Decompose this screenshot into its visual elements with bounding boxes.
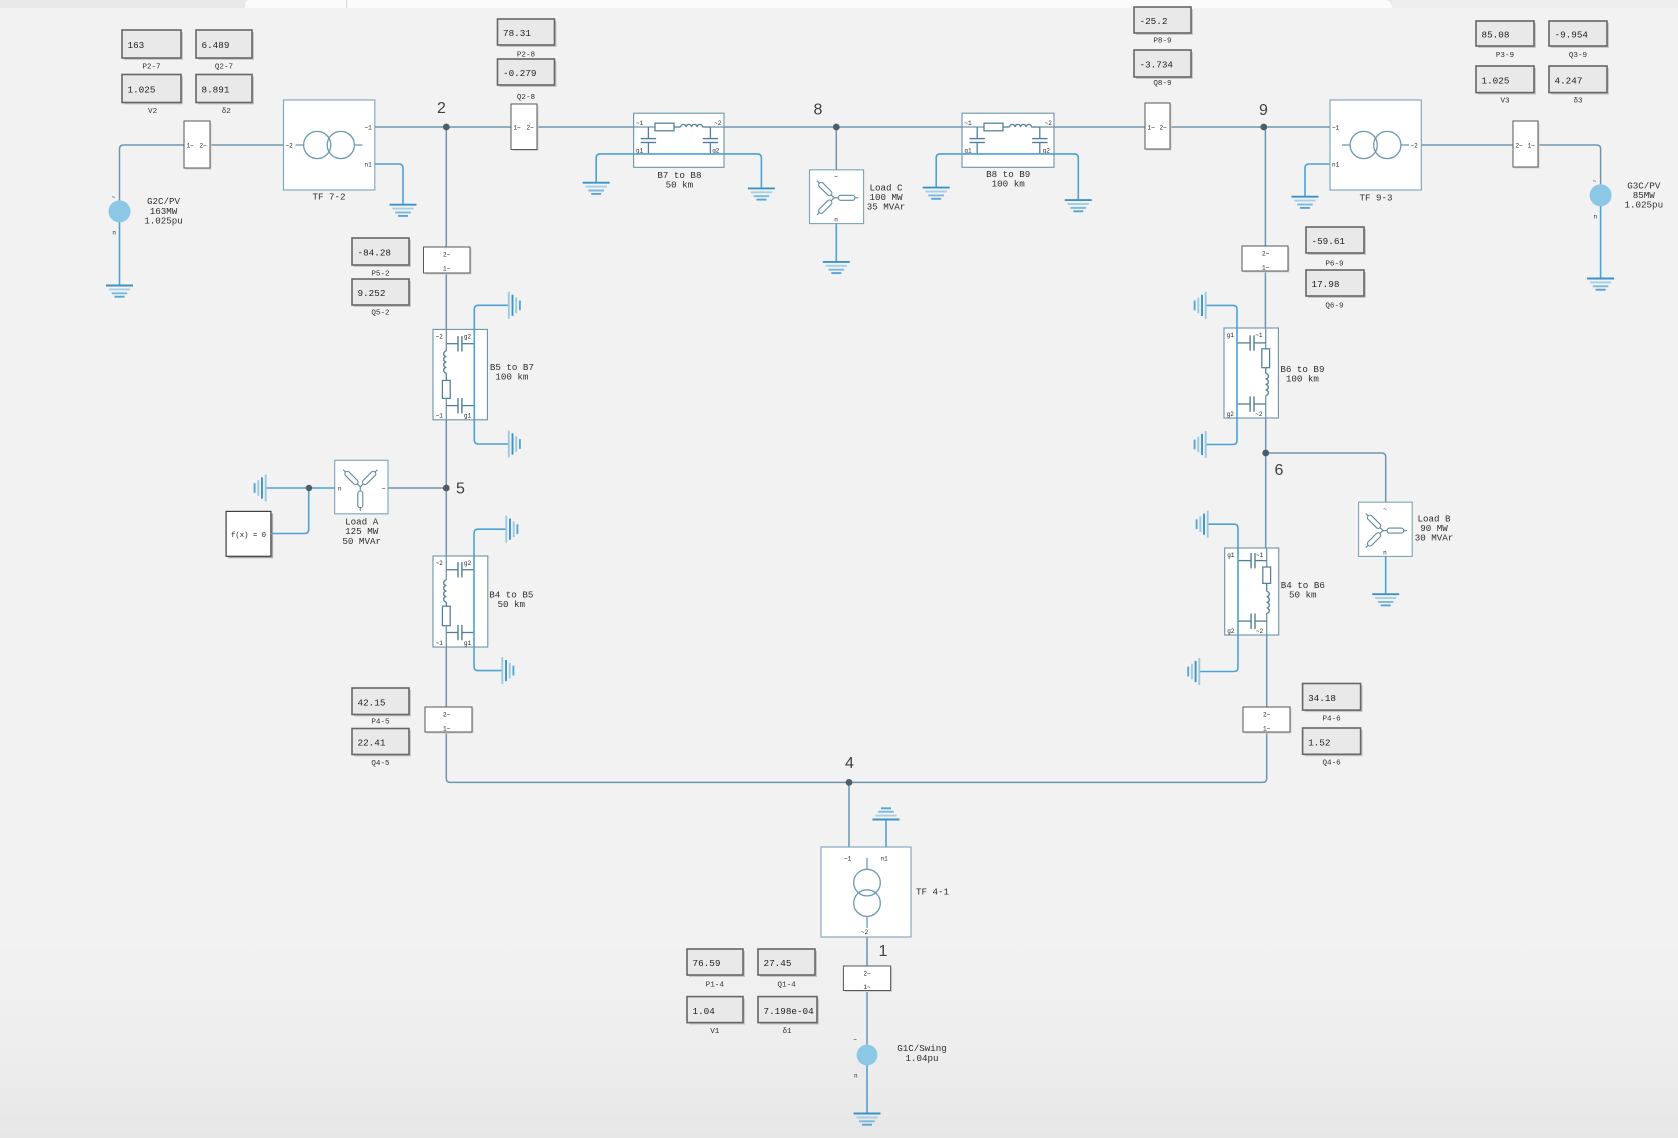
svg-text:~1: ~1 [365,124,373,131]
display P4-5 value 42.15 [352,688,411,717]
generator G1C/Swing [853,1037,877,1080]
wire TF 7-2 n1 to ground [375,164,403,204]
svg-text:g1: g1 [1227,552,1235,559]
svg-text:~1: ~1 [964,120,972,127]
display delta3 value 4.247 [1549,66,1609,95]
ground below line B8-B9 g2 [1065,200,1092,211]
wire node 9 down to connection block C6-9 [1264,127,1266,246]
wire Load C n to ground [835,223,837,261]
svg-text:1~: 1~ [1262,264,1270,271]
connection block C6-9 [1242,246,1290,273]
svg-text:8: 8 [814,102,823,119]
wire line B8-B9 g1/g2 rail to grounds [936,154,1078,200]
display delta2 value 8.891 [196,75,254,105]
svg-text:Q3-9: Q3-9 [1569,52,1588,60]
wire node 4 down to TF 4-1 [848,782,850,847]
svg-text:4.247: 4.247 [1555,76,1583,87]
svg-text:1~: 1~ [187,142,195,149]
svg-text:~2: ~2 [1411,142,1419,149]
svg-text:Q5-2: Q5-2 [371,310,390,318]
svg-text:1~: 1~ [1263,725,1271,732]
svg-text:7.198e-04: 7.198e-04 [764,1006,815,1017]
svg-text:Q8-9: Q8-9 [1153,80,1172,88]
svg-text:1~: 1~ [443,265,451,272]
solver block f(x)=0 [226,511,273,558]
transmission line B8 to B9 [962,113,1054,167]
load Load C [810,170,864,224]
ground right of line B4-B5 g2 [506,516,517,543]
wire TF 4-1 n1 to ground above [885,820,887,847]
svg-text:TF 9-3: TF 9-3 [1359,193,1392,204]
display Q5-2 value 9.252 [352,279,411,307]
transmission line B6 to B9 label [1280,364,1324,384]
svg-text:~2: ~2 [861,929,869,936]
connection block C8-9 [1145,103,1172,151]
svg-text:2~: 2~ [1516,142,1524,149]
display Q4-6 value 1.52 [1303,728,1363,756]
svg-text:P2-8: P2-8 [517,51,536,59]
svg-text:-59.61: -59.61 [1312,236,1346,247]
transformer TF 4-1 [821,847,911,937]
svg-text:~1: ~1 [844,855,852,862]
svg-text:P4-6: P4-6 [1322,716,1341,724]
ground below Load B [1372,594,1399,605]
display P5-2 value -84.28 [352,238,411,267]
svg-text:35 MVAr: 35 MVAr [867,202,906,213]
wire ground to Load A node [266,487,309,489]
ground above TF 4-1 n1 (inverted) [873,808,900,819]
wire connection block C4-6 to line B4-B6 [1266,635,1268,707]
svg-text:g2: g2 [1227,411,1235,418]
svg-text:P8-9: P8-9 [1153,38,1172,46]
svg-text:~: ~ [112,194,116,201]
svg-text:1~: 1~ [443,725,451,732]
load Load C label [867,182,906,212]
svg-text:~: ~ [834,174,838,181]
svg-text:V1: V1 [710,1028,720,1036]
svg-text:~: ~ [1383,506,1387,513]
svg-text:1~: 1~ [864,984,872,991]
svg-text:~1: ~1 [1332,124,1340,131]
connection block C4-5 [425,707,474,734]
svg-text:76.59: 76.59 [693,958,721,969]
svg-text:Q2-8: Q2-8 [517,94,536,102]
wire G2C to connection block C7 [120,145,185,201]
svg-text:85.08: 85.08 [1482,30,1510,41]
svg-text:~2: ~2 [1256,628,1264,635]
svg-text:1.025: 1.025 [1482,76,1510,87]
svg-text:f(x) = 0: f(x) = 0 [231,532,266,540]
svg-text:n: n [854,1073,858,1080]
wire node 2 down to connection block C5-2 [445,127,447,247]
wire Load A node to Load A n [309,487,335,489]
svg-text:2~: 2~ [1262,250,1270,257]
svg-text:g2: g2 [464,333,472,340]
svg-text:P3-9: P3-9 [1496,52,1515,60]
svg-text:n: n [834,217,838,224]
svg-text:Q6-9: Q6-9 [1325,303,1344,311]
display Q6-9 value 17.98 [1306,270,1366,298]
node 2 [437,100,450,131]
svg-text:27.45: 27.45 [764,958,792,969]
chrome: top tab strip (decorative) [0,0,1678,8]
wire line B6-B9 to connection block C6-9 [1264,271,1266,328]
connection block C1-4 [843,966,892,992]
ground below G1C [854,1114,881,1125]
svg-text:~1: ~1 [436,412,444,419]
transformer TF 9-3 [1330,100,1421,190]
wire node 8 down to Load C [835,127,837,170]
svg-text:n: n [112,230,116,237]
svg-text:n: n [338,486,342,493]
svg-text:100 km: 100 km [992,179,1026,190]
ground below line B7-B8 g1 [583,183,610,194]
wire TF 9-3 port ~2 to connection block C3 [1422,144,1514,146]
svg-text:78.31: 78.31 [503,28,531,39]
svg-text:2~: 2~ [864,970,872,977]
display V3 value 1.025 [1476,66,1536,95]
wire line B4-B5 to connection block C4-5 [445,647,447,707]
wire connection block C7 to TF 7-2 [210,144,284,146]
svg-text:n1: n1 [365,161,373,168]
svg-text:P6-9: P6-9 [1325,260,1344,268]
display P3-9 value 85.08 [1476,21,1536,48]
svg-text:6: 6 [1275,462,1284,479]
svg-text:1.025: 1.025 [128,85,156,96]
ground left of line B4-B6 g1 [1197,511,1208,538]
svg-text:9: 9 [1259,102,1268,119]
wire Load B n to ground [1385,556,1387,593]
display Q1-4 value 27.45 [758,949,817,977]
svg-text:1.52: 1.52 [1308,737,1330,748]
svg-text:1.025pu: 1.025pu [1624,200,1663,211]
wire G3C n to ground [1600,206,1602,278]
node 6 [1262,450,1283,479]
wire line B5-B7 to node 5 to line B4-B5 [445,420,447,556]
ground left of line B6-B9 g1 [1195,292,1206,319]
wire Load A to node 5 [388,487,446,489]
svg-text:~1: ~1 [1256,552,1264,559]
wire TF 4-1 port ~2 to connection block C1-4 [866,937,868,966]
display Q2-8 value -0.279 [498,59,557,87]
svg-text:2~: 2~ [527,124,535,131]
transmission line B8 to B9 label [986,169,1030,189]
svg-text:163: 163 [128,40,145,51]
wire line B4-B5 g rail to grounds [474,529,506,670]
wire bus 4 node to right corner up to connection block C4-6 [849,732,1267,782]
svg-text:~: ~ [853,1037,857,1044]
wire line B4-B6 g rail to grounds [1200,524,1238,671]
svg-text:~: ~ [382,486,386,493]
wire f(x) solver to Load A node [271,488,309,534]
svg-text:2~: 2~ [443,251,451,258]
svg-text:42.15: 42.15 [358,698,386,709]
wire TF 9-3 n1 to ground [1305,164,1330,196]
svg-text:~1: ~1 [636,120,644,127]
svg-text:g1: g1 [1227,332,1235,339]
wire line B4-B6 to node 6 to line B6-B9 [1265,418,1267,548]
connection block C3 (G3C side) [1513,121,1540,169]
svg-text:100 km: 100 km [495,371,529,382]
svg-text:g2: g2 [464,560,472,567]
display P1-4 value 76.59 [687,949,745,977]
generator G2C/PV [109,194,131,237]
svg-text:4: 4 [845,755,854,772]
svg-text:50 km: 50 km [498,599,526,610]
node at Load A ground junction [306,485,312,491]
svg-text:~2: ~2 [714,120,722,127]
wire connection block C2-8 to line B7-B8 [537,126,634,128]
transmission line B4 to B6 label [1281,580,1325,600]
wire connection block C5-2 to line B5-B7 [445,273,447,329]
wire G2C n to ground [119,222,121,285]
connection block C5-2 [424,247,472,275]
transmission line B5 to B7 [433,329,487,419]
transmission line B4 to B5 [433,556,488,647]
svg-text:50 km: 50 km [666,180,694,191]
svg-text:~1: ~1 [436,640,444,647]
connection block C2-8 [511,104,539,151]
svg-text:Q1-4: Q1-4 [777,982,796,990]
wire connection block C4-5 down to bus 4 corner [446,732,849,782]
ground below line B7-B8 g2 [748,188,775,199]
transmission line B7 to B8 [634,113,724,167]
display Q3-9 value -9.954 [1549,21,1609,48]
svg-text:~2: ~2 [1045,120,1053,127]
generator G1C/Swing label [897,1043,947,1064]
svg-text:~2: ~2 [436,560,444,567]
svg-text:2~: 2~ [1160,124,1168,131]
display V2 value 1.025 [122,75,183,105]
load Load B [1359,502,1413,556]
node 4 [845,755,854,786]
svg-text:1.025pu: 1.025pu [144,215,183,226]
svg-text:50 MVAr: 50 MVAr [342,536,381,547]
svg-text:g1: g1 [464,640,472,647]
svg-text:V3: V3 [1500,98,1510,106]
svg-text:n1: n1 [881,855,889,862]
svg-text:~1: ~1 [1255,332,1263,339]
svg-text:~2: ~2 [1255,411,1263,418]
display P2-7 value 163 [122,30,183,60]
ground right of line B5-B7 g2 [509,292,520,319]
svg-text:1.04: 1.04 [693,1006,716,1017]
svg-text:34.18: 34.18 [1308,693,1336,704]
svg-text:δ1: δ1 [782,1028,792,1036]
svg-text:30 MVAr: 30 MVAr [1415,533,1454,544]
load Load B label [1415,514,1454,544]
svg-text:2~: 2~ [443,711,451,718]
display P6-9 value -59.61 [1306,227,1366,255]
svg-text:100 km: 100 km [1286,373,1320,384]
svg-text:g1: g1 [464,412,472,419]
node 5 [443,480,465,497]
ground below line B8-B9 g1 [923,188,950,199]
wire line B7-B8 to node 8 to line B8-B9 [724,126,962,128]
node 8 [814,102,840,131]
ground below Load C [823,262,850,273]
load Load A label [342,517,381,547]
transformer TF 7-2 [284,100,375,190]
svg-text:n: n [1594,214,1598,221]
svg-text:50 km: 50 km [1289,589,1317,600]
generator G3C/PV [1590,178,1612,221]
svg-text:-84.28: -84.28 [358,248,391,259]
svg-text:g2: g2 [1227,628,1235,635]
ground below TF 9-3 n1 [1292,197,1319,208]
display Q2-7 value 6.489 [196,30,254,60]
wire connection block C8-9 to node 9 to TF 9-3 [1170,126,1330,128]
svg-text:1~: 1~ [514,124,522,131]
ground below TF 7-2 n1 [390,205,417,216]
wire line B6-B9 g rail to grounds [1206,305,1237,444]
svg-text:2: 2 [437,100,446,117]
wire line B7-B8 g1/g2 rail to grounds [596,154,761,188]
svg-text:Q4-6: Q4-6 [1322,760,1341,768]
display V1 value 1.04 [687,997,745,1025]
wire connection block C1-4 to G1C [866,990,868,1045]
wire line B5-B7 g rail to grounds [474,305,508,444]
svg-text:5: 5 [456,480,465,497]
svg-text:n1: n1 [1332,161,1340,168]
svg-text:-9.954: -9.954 [1555,30,1589,41]
svg-text:9.252: 9.252 [358,288,386,299]
svg-text:P2-7: P2-7 [142,63,160,71]
ground below G2C [106,286,133,297]
svg-text:V2: V2 [148,108,158,116]
svg-text:1~: 1~ [1528,142,1536,149]
wire connection block C3 to G3C [1538,145,1601,185]
wire G1C n to ground [866,1065,868,1113]
node 9 [1259,102,1268,130]
display P2-8 value 78.31 [498,19,557,47]
ground below G3C [1587,279,1614,290]
ground left of Load A node [255,475,266,502]
transmission line B5 to B7 label [490,362,534,382]
transmission line B7 to B8 label [657,170,701,190]
svg-text:8.891: 8.891 [202,85,230,96]
SECTION: ground symbols [106,183,1614,1125]
svg-text:P4-5: P4-5 [371,719,390,727]
svg-text:22.41: 22.41 [358,738,386,749]
wire line B8-B9 to connection block C8-9 [1054,126,1145,128]
svg-text:δ2: δ2 [222,108,232,116]
svg-text:δ3: δ3 [1573,98,1583,106]
display delta1 value 7.198e-04 [758,997,819,1025]
load Load A [335,460,388,514]
wire node 6 to Load B corner [1266,453,1386,502]
svg-text:n: n [1383,549,1387,556]
svg-text:6.489: 6.489 [202,40,230,51]
ground right of line B5-B7 g1 [509,431,520,458]
svg-text:~2: ~2 [286,142,294,149]
display P8-9 value -25.2 [1134,7,1193,35]
SECTION: bright blue ground wires [120,154,1601,1113]
transmission line B6 to B9 [1224,328,1278,418]
svg-text:2~: 2~ [200,142,208,149]
svg-text:P1-4: P1-4 [706,982,725,990]
svg-text:~2: ~2 [436,333,444,340]
svg-text:~: ~ [1593,178,1597,185]
connection block C4-6 [1243,707,1292,734]
svg-text:-0.279: -0.279 [503,68,536,79]
svg-text:Q4-5: Q4-5 [371,760,390,768]
svg-text:-3.734: -3.734 [1140,60,1174,71]
svg-text:-25.2: -25.2 [1140,16,1168,27]
transmission line B4 to B5 label [489,590,533,610]
transmission line B4 to B6 [1225,548,1279,635]
svg-text:1.04pu: 1.04pu [905,1053,938,1064]
display Q8-9 value -3.734 [1134,50,1193,79]
SECTION: wires [120,127,1601,1045]
svg-text:1~: 1~ [1148,124,1156,131]
connection block C7 (G2C side) [184,121,212,170]
display Q4-5 value 22.41 [352,729,411,757]
ground right of line B4-B5 g1 [502,657,513,684]
svg-text:P5-2: P5-2 [371,271,390,279]
wire TF 7-2 port ~1 to node 2 to connection block C2-8 [375,126,511,128]
display P4-6 value 34.18 [1303,684,1363,713]
ground left of line B4-B6 g2 [1188,658,1199,685]
generator G2C/PV label [144,196,183,226]
svg-text:1: 1 [879,943,888,960]
svg-text:2~: 2~ [1263,711,1271,718]
svg-text:17.98: 17.98 [1312,279,1340,290]
svg-text:Q2-7: Q2-7 [215,63,233,71]
generator G3C/PV label [1624,181,1663,211]
svg-text:TF 7-2: TF 7-2 [312,192,345,203]
ground left of line B6-B9 g2 [1195,431,1206,458]
svg-text:TF 4-1: TF 4-1 [916,887,950,898]
